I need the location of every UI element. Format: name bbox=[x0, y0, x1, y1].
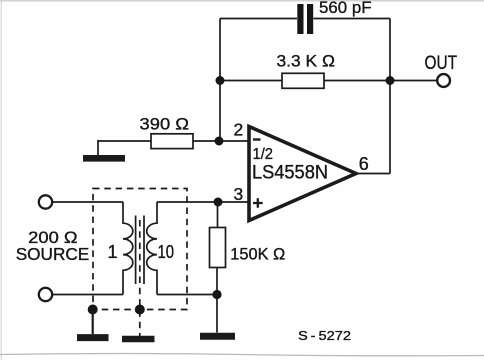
resistor R3 150K body bbox=[210, 228, 226, 268]
ground: right ground bar bbox=[200, 333, 235, 340]
node: core ground junction bbox=[135, 305, 145, 315]
resistor R1 390 body bbox=[151, 134, 193, 149]
node: 150K bottom junction bbox=[212, 290, 221, 299]
wire: top feedback left segment bbox=[220, 18, 297, 20]
svg-text:LS4558N: LS4558N bbox=[252, 163, 328, 184]
transformer T1 core line right bbox=[143, 216, 145, 285]
wire: 150K top stub bbox=[217, 202, 219, 228]
svg-text:150K Ω: 150K Ω bbox=[230, 245, 285, 264]
terminal: source top circle bbox=[39, 195, 52, 208]
capacitor C1 560pF right plate bbox=[307, 4, 313, 34]
node: shield ground junction bbox=[88, 305, 98, 315]
svg-text:S - 5272: S - 5272 bbox=[298, 328, 351, 343]
svg-text:390 Ω: 390 Ω bbox=[140, 115, 190, 134]
transformer T1 core line left bbox=[135, 216, 137, 285]
op-amp plus sign bbox=[253, 198, 263, 208]
terminal OUT circle bbox=[437, 74, 450, 87]
svg-text:3.3 K Ω: 3.3 K Ω bbox=[277, 52, 336, 71]
transformer T1 secondary winding bbox=[147, 202, 157, 295]
svg-text:1/2: 1/2 bbox=[253, 146, 274, 163]
wire: to OUT terminal bbox=[390, 80, 437, 82]
wire: pin3 from transformer bbox=[157, 201, 249, 203]
transformer T1 primary winding bbox=[123, 202, 133, 295]
wire: shield ground stub bbox=[92, 310, 94, 335]
ground: 390 ohm ground bar bbox=[83, 155, 125, 162]
shield dashed box bbox=[93, 189, 187, 310]
capacitor C1 560pF left plate bbox=[297, 4, 303, 34]
wire: source bottom to primary bbox=[52, 294, 123, 296]
svg-text:2: 2 bbox=[234, 120, 244, 140]
wire: output pin6 bbox=[356, 173, 390, 175]
op-amp minus sign bbox=[253, 138, 261, 140]
svg-text:560 pF: 560 pF bbox=[319, 0, 372, 17]
wire: top feedback right segment bbox=[314, 18, 391, 20]
svg-text:10: 10 bbox=[158, 242, 175, 262]
terminal: source bottom circle bbox=[39, 288, 52, 301]
svg-text:6: 6 bbox=[359, 154, 369, 174]
svg-text:SOURCE: SOURCE bbox=[16, 244, 90, 264]
wire: 150K bottom stub to ground bbox=[216, 268, 218, 333]
node: pin2 junction bbox=[215, 137, 224, 146]
wire: source top to primary bbox=[52, 201, 123, 203]
ground: core ground bar bbox=[122, 336, 155, 343]
node: pin3 junction bbox=[214, 198, 223, 207]
wire: 3.3K left segment bbox=[220, 80, 282, 82]
ground: shield ground bar bbox=[77, 334, 109, 341]
node: feedback-left junction bbox=[216, 76, 225, 85]
wire: secondary bottom to 150K node bbox=[157, 294, 217, 296]
node: output junction bbox=[386, 76, 395, 85]
resistor R2 3.3K body bbox=[282, 73, 324, 88]
svg-text:3: 3 bbox=[234, 184, 244, 204]
wire: core ground dashed bbox=[139, 220, 141, 336]
wire: 390 gnd stub bbox=[97, 140, 99, 155]
svg-text:1: 1 bbox=[108, 242, 118, 262]
wire: 3.3K right segment bbox=[324, 80, 390, 82]
wire: 390 ohm left segment bbox=[98, 140, 151, 142]
wire: 390 to pin2 bbox=[193, 140, 249, 142]
wire: right feedback vertical bbox=[389, 19, 391, 174]
svg-text:OUT: OUT bbox=[425, 53, 458, 74]
wire: left feedback vertical bbox=[219, 19, 221, 142]
op-amp U1 LS4558N triangle bbox=[249, 127, 356, 221]
